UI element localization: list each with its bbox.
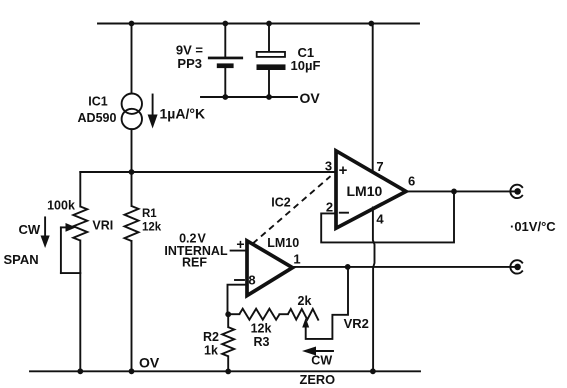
svg-text:VR2: VR2 xyxy=(344,316,369,331)
svg-text:2k: 2k xyxy=(298,294,312,308)
svg-text:10µF: 10µF xyxy=(291,58,321,73)
svg-text:7: 7 xyxy=(376,159,383,174)
svg-text:1k: 1k xyxy=(204,344,218,358)
svg-text:1: 1 xyxy=(293,252,300,267)
svg-text:12k: 12k xyxy=(251,322,272,336)
svg-text:VRI: VRI xyxy=(92,219,113,233)
svg-text:PP3: PP3 xyxy=(177,56,202,71)
svg-text:12k: 12k xyxy=(142,222,162,234)
svg-text:R2: R2 xyxy=(203,330,219,344)
svg-text:8: 8 xyxy=(248,273,255,288)
svg-text:R3: R3 xyxy=(254,335,270,349)
svg-text:6: 6 xyxy=(408,174,415,189)
svg-text:OV: OV xyxy=(300,90,321,106)
svg-text:R1: R1 xyxy=(142,208,157,220)
svg-text:1µA/°K: 1µA/°K xyxy=(160,106,206,122)
svg-text:SPAN: SPAN xyxy=(4,252,39,267)
svg-text:+: + xyxy=(236,236,244,252)
svg-text:·01V/°C: ·01V/°C xyxy=(510,219,556,234)
svg-text:IC1: IC1 xyxy=(88,95,108,109)
svg-text:CW: CW xyxy=(311,353,332,367)
svg-text:CW: CW xyxy=(19,222,41,237)
svg-text:OV: OV xyxy=(139,355,160,371)
svg-text:3: 3 xyxy=(325,159,332,174)
svg-text:4: 4 xyxy=(376,212,384,227)
svg-text:+: + xyxy=(339,162,348,179)
svg-text:IC2: IC2 xyxy=(271,195,291,209)
svg-text:2: 2 xyxy=(326,200,333,215)
svg-text:AD590: AD590 xyxy=(78,111,117,125)
svg-text:ZERO: ZERO xyxy=(300,372,336,387)
svg-text:LM10: LM10 xyxy=(347,183,383,199)
svg-text:100k: 100k xyxy=(47,199,75,213)
svg-text:LM10: LM10 xyxy=(267,236,299,250)
svg-text:REF: REF xyxy=(182,256,207,270)
